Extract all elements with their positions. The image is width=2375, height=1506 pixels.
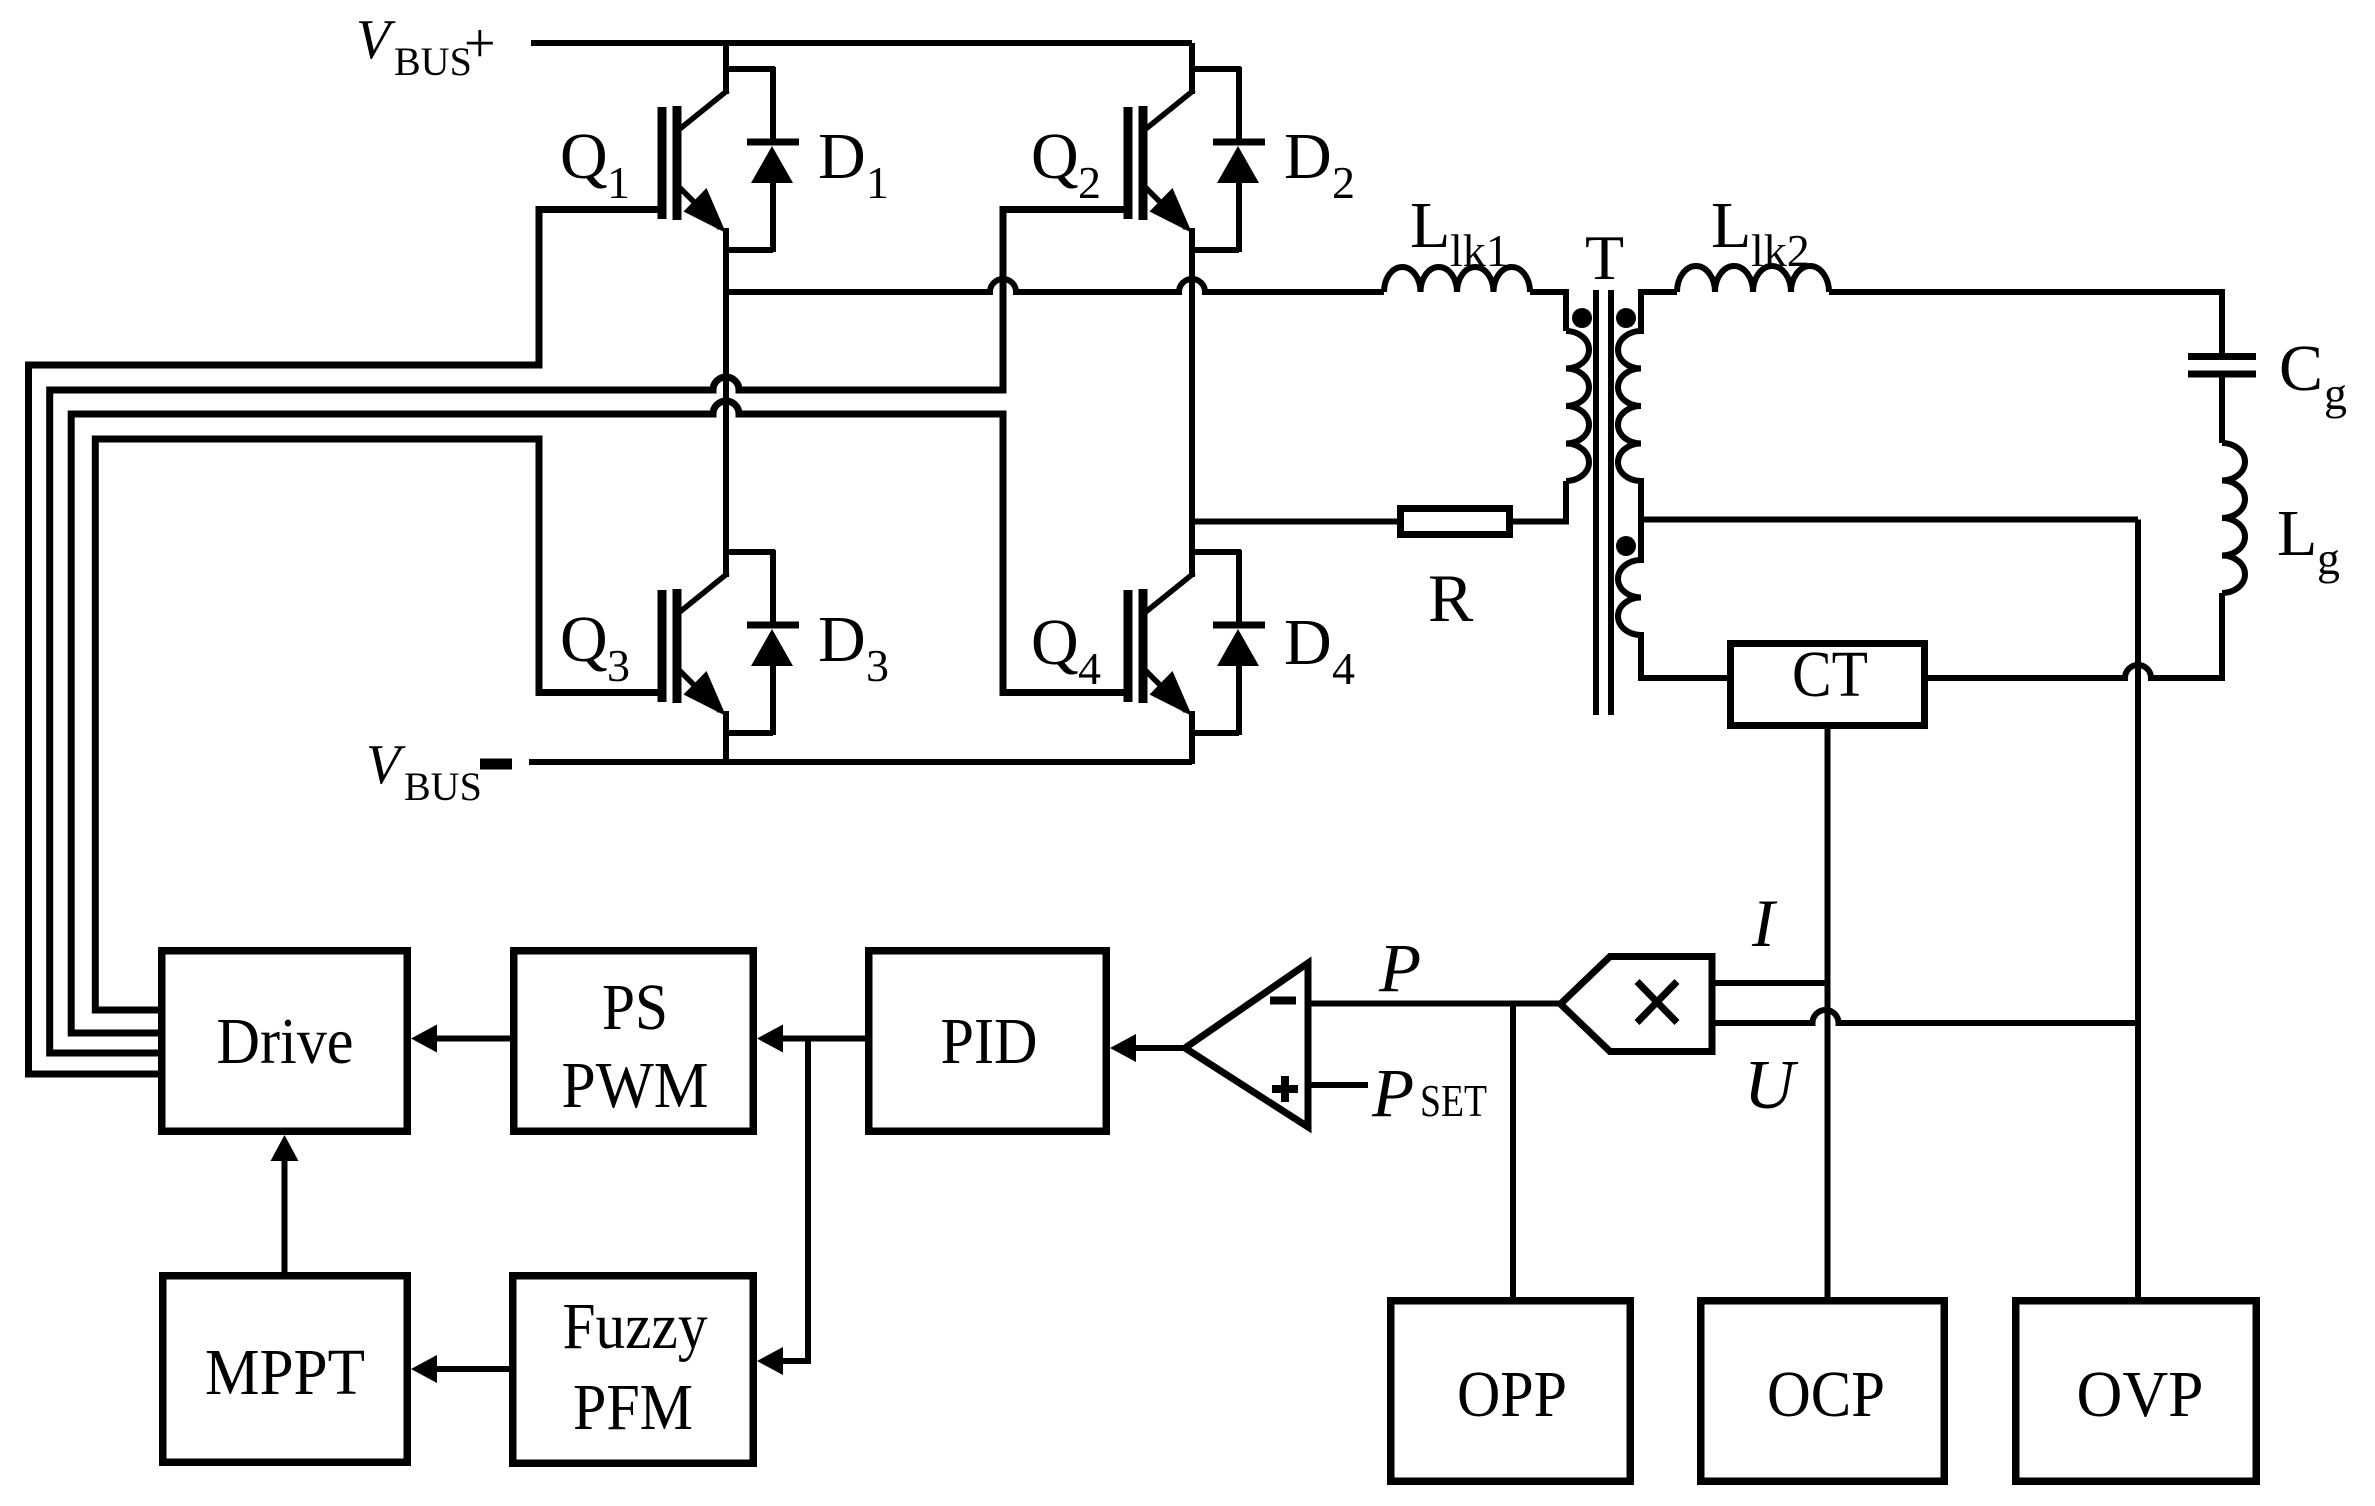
diode D2 label	[1284, 120, 1355, 208]
block OPP	[1391, 1301, 1631, 1482]
svg-text:L: L	[2277, 497, 2317, 570]
svg-text:PID: PID	[941, 1005, 1038, 1078]
svg-text:C: C	[2279, 332, 2323, 405]
transformer secondary polarity dot (upper)	[1616, 308, 1636, 328]
svg-text:Fuzzy: Fuzzy	[563, 1290, 708, 1363]
wire gate Q1	[29, 210, 663, 1075]
svg-text:BUS: BUS	[394, 39, 472, 84]
block Drive	[162, 951, 408, 1132]
svg-text:P: P	[1371, 1055, 1414, 1131]
block PID	[869, 951, 1107, 1132]
svg-text:V: V	[356, 9, 396, 71]
transistor Q2 label	[1031, 120, 1101, 208]
comparator plus sign	[1272, 1085, 1298, 1093]
block MPPT	[163, 1276, 408, 1463]
svg-text:g: g	[2324, 368, 2347, 419]
arrow PID to PS PWM	[781, 1036, 865, 1042]
svg-text:CT: CT	[1792, 638, 1868, 711]
svg-text:PFM: PFM	[573, 1371, 693, 1444]
inductor Lg label	[2277, 497, 2340, 584]
block PS PWM	[514, 951, 754, 1132]
svg-text:4: 4	[1078, 643, 1101, 694]
wire Q4 emitter to V_BUS-	[1189, 711, 1195, 764]
svg-text:T: T	[1585, 222, 1624, 293]
wire left leg midpoint vertical	[723, 228, 729, 577]
arrow Fuzzy PFM to MPPT	[435, 1366, 509, 1372]
diode D3 label	[818, 603, 889, 691]
transformer secondary lower winding and wire to CT	[1618, 520, 1727, 679]
transistor Q2	[1128, 43, 1265, 252]
svg-text:MPPT: MPPT	[205, 1336, 365, 1409]
wire U input to multiplier, hop over I line	[1712, 1010, 2138, 1023]
wire gate Q4 (hops over left midpoint)	[71, 401, 1128, 1033]
net label V_BUS+	[356, 9, 496, 84]
transformer secondary polarity dot (lower)	[1616, 536, 1636, 556]
wire L_lk2 to Cg	[1829, 292, 2222, 353]
svg-text:1: 1	[866, 157, 889, 208]
svg-text:SET: SET	[1420, 1075, 1487, 1126]
svg-text:Q: Q	[1031, 120, 1079, 193]
net label V_BUS-	[366, 734, 512, 809]
wire gate Q2 (hops over left midpoint)	[50, 210, 1128, 1054]
transformer T core	[1593, 290, 1599, 715]
diode D4 label	[1284, 606, 1355, 694]
node P_SET label	[1371, 1055, 1487, 1131]
transistor Q4 label	[1031, 606, 1101, 694]
wire node A: left midpoint to L_lk1 and primary, with hops over Q2 gate and Q2 emitter	[726, 279, 1384, 292]
wire right leg midpoint vertical	[1189, 228, 1195, 577]
transformer primary polarity dot	[1572, 308, 1592, 328]
wire V_BUS- bottom rail	[529, 759, 1192, 765]
svg-text:L: L	[1711, 189, 1751, 262]
wire L_lk1 to transformer primary top	[1530, 292, 1566, 331]
wire V_BUS+ top rail	[531, 40, 1192, 46]
wire I input to multiplier	[1712, 980, 1828, 986]
wire P: multiplier output to comparator minus input	[1308, 1001, 1561, 1007]
current transformer CT box	[1731, 644, 1925, 726]
svg-text:U: U	[1744, 1047, 1799, 1124]
wire Q3 emitter to V_BUS-	[723, 711, 729, 764]
inductor L_lk1	[1384, 267, 1530, 292]
svg-text:L: L	[1410, 189, 1450, 262]
svg-text:2: 2	[1078, 157, 1101, 208]
block Fuzzy PFM	[513, 1276, 754, 1464]
svg-text:OPP: OPP	[1457, 1358, 1567, 1431]
svg-text:PWM: PWM	[562, 1049, 709, 1122]
transistor Q1	[662, 43, 799, 252]
capacitor Cg	[2188, 353, 2256, 360]
capacitor Cg label	[2279, 332, 2347, 419]
svg-text:Drive: Drive	[217, 1005, 354, 1078]
inductor L_lk1 label	[1410, 189, 1509, 276]
comparator (error amp)	[1185, 963, 1308, 1127]
svg-text:D: D	[1284, 120, 1332, 193]
svg-text:1: 1	[607, 157, 630, 208]
comparator minus sign	[1270, 997, 1296, 1005]
transformer T primary winding	[1566, 331, 1589, 481]
transformer secondary upper winding and top wire to L_lk2	[1618, 292, 2138, 520]
svg-text:3: 3	[607, 640, 630, 691]
transistor Q1 label	[560, 120, 630, 208]
svg-text:lk2: lk2	[1751, 225, 1810, 276]
wire P tee down to OPP	[1510, 1004, 1516, 1298]
svg-text:+: +	[464, 13, 496, 75]
svg-text:D: D	[818, 120, 866, 193]
inductor L_lk2 label	[1711, 189, 1810, 276]
wire U sense: secondary center tap down to OVP	[2135, 520, 2141, 1298]
svg-text:Q: Q	[560, 603, 608, 676]
inductor L_lk2	[1677, 266, 1829, 292]
transistor Q3	[662, 526, 799, 735]
transistor Q3 label	[560, 603, 630, 691]
svg-text:lk1: lk1	[1450, 225, 1509, 276]
wire PID output tee down to Fuzzy PFM, arrow into Fuzzy PFM	[781, 1039, 808, 1362]
wire P_SET stub	[1308, 1082, 1368, 1088]
resistor R	[1401, 509, 1510, 535]
wire primary bottom to R	[1513, 481, 1566, 522]
svg-text:4: 4	[1332, 643, 1355, 694]
wire gate Q3	[95, 439, 662, 1010]
block OVP	[2016, 1301, 2257, 1482]
svg-text:OCP: OCP	[1767, 1358, 1885, 1431]
svg-text:2: 2	[1332, 157, 1355, 208]
arrow MPPT to Drive	[282, 1159, 288, 1272]
svg-text:PS: PS	[602, 971, 668, 1044]
transistor Q4	[1128, 526, 1265, 735]
svg-text:D: D	[818, 603, 866, 676]
svg-text:Q: Q	[1031, 606, 1079, 679]
wire right midpoint to R	[1192, 519, 1397, 525]
multiplier	[1561, 957, 1713, 1052]
diode D1 label	[818, 120, 889, 208]
svg-text:3: 3	[866, 640, 889, 691]
svg-text:P: P	[1378, 930, 1421, 1006]
svg-text:R: R	[1428, 560, 1474, 636]
svg-text:D: D	[1284, 606, 1332, 679]
wire CT bottom to I junction to OCP	[1825, 729, 1831, 1297]
svg-text:g: g	[2317, 533, 2340, 584]
svg-text:BUS: BUS	[404, 764, 482, 809]
wire Lg to CT right, hop over OVP sense line	[1928, 593, 2222, 678]
svg-text:I: I	[1751, 885, 1778, 961]
wire Cg to Lg	[2219, 378, 2225, 444]
block OCP	[1701, 1301, 1945, 1482]
arrow comparator to PID	[1134, 1045, 1185, 1051]
svg-text:OVP: OVP	[2077, 1358, 2204, 1431]
svg-text:V: V	[366, 734, 406, 796]
arrow PS PWM to Drive	[435, 1036, 510, 1042]
inductor Lg	[2222, 443, 2245, 593]
svg-text:Q: Q	[560, 120, 608, 193]
